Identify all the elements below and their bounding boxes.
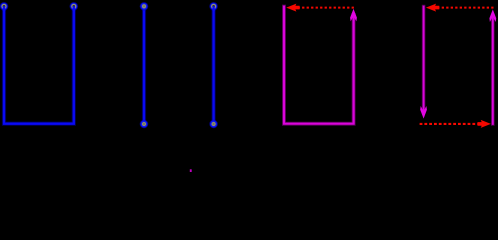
figure 3: magenta loop with EMF arrows	[284, 7, 354, 124]
figure 1: U-shaped blue wire	[4, 6, 74, 123]
up arrowhead fig3 right	[350, 9, 357, 22]
red arrowhead left fig3	[286, 4, 299, 12]
left rod glow	[142, 6, 146, 124]
node ball top-right fig2	[209, 2, 218, 11]
down arrowhead fig4 left	[420, 106, 427, 119]
magenta U glow	[284, 7, 354, 124]
right shaft glow	[491, 16, 495, 124]
figure 4: magenta circulation loop with dashed red top/bottom	[424, 7, 493, 124]
red dashed arrow bottom fig4 (pointing right)	[420, 123, 482, 125]
red arrowhead right fig4	[478, 120, 491, 128]
figure 2: two vertical blue rods	[144, 6, 214, 124]
wire stubs over node balls (horseshoe look)	[4, 6, 214, 11]
up arrowhead fig4 right	[489, 9, 496, 22]
node ball top-left fig2	[140, 2, 149, 11]
left rod core	[143, 6, 145, 124]
red dashed arrow top fig3 (pointing left)	[295, 7, 354, 9]
right rod core	[212, 6, 214, 124]
node ball bottom-left fig2	[140, 120, 149, 129]
wire U glow	[4, 6, 74, 123]
node ball bottom-right fig2	[209, 120, 218, 129]
right rod glow	[212, 6, 216, 124]
magenta U core (left, bottom, right shaft)	[284, 7, 354, 124]
wire U core	[4, 6, 74, 123]
red arrowhead left fig4	[426, 4, 439, 12]
right shaft core	[492, 16, 494, 124]
node ball top-right fig1	[70, 2, 79, 11]
red dashed arrow top fig4 (pointing left)	[434, 7, 493, 9]
left shaft core	[423, 7, 425, 112]
left shaft glow	[422, 7, 426, 112]
small magenta tick bottom center (cropped glyph)	[190, 169, 192, 172]
node ball top-left fig1	[0, 2, 8, 11]
